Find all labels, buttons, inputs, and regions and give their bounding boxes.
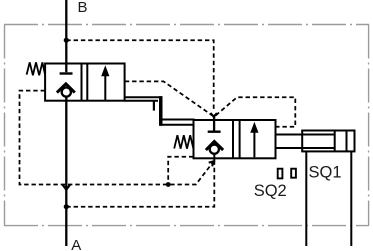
valve V1 body (two-position box) <box>45 64 125 101</box>
SQ2 sensor marks <box>278 169 283 179</box>
pilot line: A tap to V2 bottom stub <box>66 162 214 206</box>
svg-text:SQ1: SQ1 <box>309 163 342 181</box>
node: pilot tap on B line <box>64 38 69 43</box>
cylinder SQ1 body <box>302 131 354 152</box>
pilot line: V2 spring side <box>168 157 193 185</box>
valve V2 check valve seat <box>206 142 223 151</box>
arrowhead at V2 pilot <box>210 113 217 117</box>
node: pilot junction <box>166 182 171 187</box>
wire: SQ1 support left <box>305 151 307 246</box>
wire: port B line down to valve V1 <box>65 0 67 72</box>
wire: SQ1 support right <box>350 151 352 246</box>
valve V1 flow arrow <box>104 74 106 100</box>
arrowhead on A line <box>62 184 70 189</box>
wire: step lower horizontals to V2 <box>160 119 195 121</box>
arrowhead at V2 bottom port <box>209 161 214 166</box>
valve V1 blocked-port T symbol <box>60 72 73 74</box>
wire: step vertical <box>159 96 163 126</box>
svg-text:SQ2: SQ2 <box>254 182 287 200</box>
valve V2 blocked-port T symbol <box>208 130 221 132</box>
valve V1 check valve ball <box>62 88 71 97</box>
svg-text:B: B <box>78 0 88 16</box>
valve V1 return spring <box>27 62 46 75</box>
wire: valve V1 down to port A <box>65 97 67 246</box>
node: pilot tap on A line <box>64 204 69 209</box>
enclosure boundary (dash-dot frame) <box>4 25 369 226</box>
valve V2 body (two-position box) <box>194 120 276 158</box>
valve V2 check valve ball <box>210 145 219 154</box>
valve V1 check valve seat <box>57 84 75 93</box>
cylinder SQ1 piston <box>334 131 336 152</box>
pilot line: V1 right port to V2 pilot <box>125 81 213 115</box>
pilot line: B tap to V2 pilot <box>66 40 213 111</box>
wire: plugged stub <box>153 101 155 111</box>
svg-text:A: A <box>71 237 81 251</box>
cylinder SQ1 rod <box>276 134 335 136</box>
wire: V2 bottom port stub <box>213 154 215 163</box>
valve V2 flow arrow <box>253 131 255 157</box>
wire: V1 outlet to V2 (stepped double line) <box>125 96 163 98</box>
valve V2 pilot stem <box>213 117 215 131</box>
pilot line: V2 pilot loop to V2 right port <box>216 97 296 126</box>
pilot line: V1 spring side to A line and V2 bottom port <box>20 91 213 185</box>
valve V2 return spring <box>174 135 193 149</box>
